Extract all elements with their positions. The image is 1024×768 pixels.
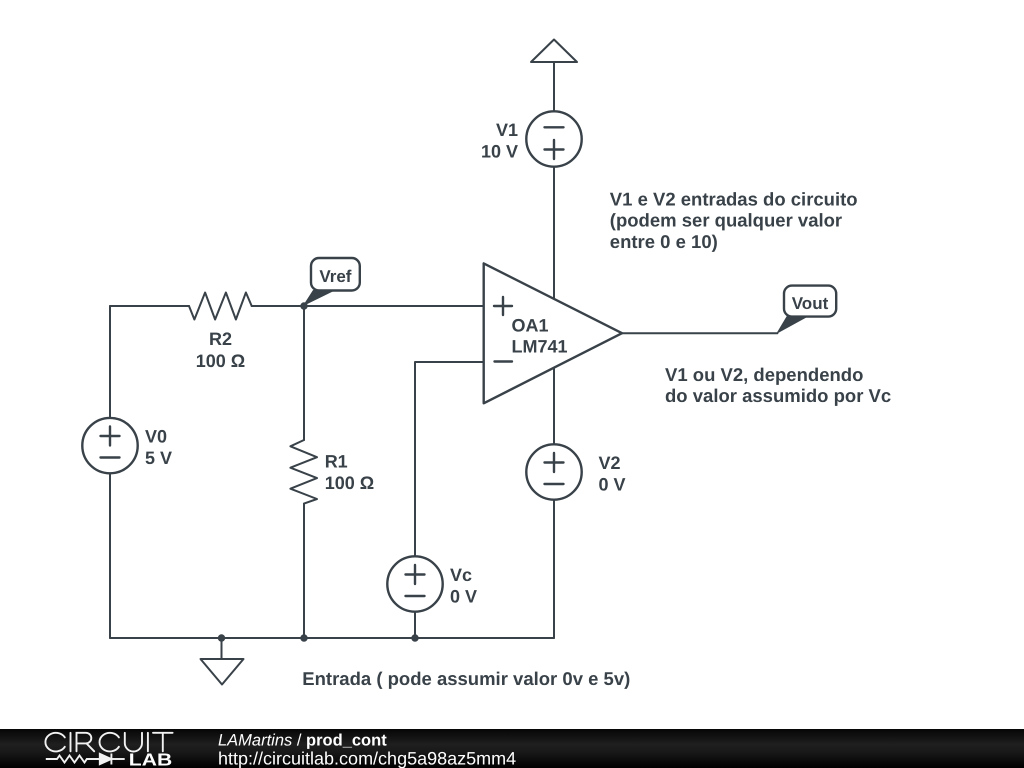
wire: minus input to Vc column [415, 362, 484, 556]
svg-text:R1: R1 [325, 452, 348, 472]
svg-text:5 V: 5 V [145, 448, 172, 468]
U [125, 733, 142, 752]
wire: R1 top lead [303, 306, 305, 440]
voltage source Vc [387, 556, 442, 611]
svg-text:R2: R2 [209, 329, 232, 349]
label R2 100 ohm [196, 329, 245, 371]
resistor R2 [189, 293, 252, 320]
wire: Vc bottom lead [414, 612, 416, 638]
svg-text:0 V: 0 V [599, 475, 626, 495]
junction dot ground [218, 634, 225, 641]
voltage source V1 [526, 111, 581, 166]
svg-text:Entrada ( pode assumir valor 0: Entrada ( pode assumir valor 0v e 5v) [302, 668, 630, 689]
ground [201, 659, 244, 685]
op-amp + input mark [494, 297, 512, 315]
node Vout flag [777, 317, 807, 333]
logo resistor + diode motif [46, 754, 125, 765]
op-amp - input mark [495, 360, 513, 362]
svg-text:do valor assumido por Vc: do valor assumido por Vc [665, 385, 891, 406]
label R1 100 ohm [325, 452, 374, 494]
svg-text:V1 ou V2, dependendo: V1 ou V2, dependendo [665, 364, 863, 385]
voltage source V0 [82, 418, 137, 473]
svg-text:LM741: LM741 [512, 337, 568, 357]
footer bar [0, 729, 1024, 768]
voltage source V2 [526, 444, 581, 499]
svg-text:V2: V2 [599, 453, 621, 473]
svg-text:(podem ser qualquer valor: (podem ser qualquer valor [610, 210, 842, 231]
label V0 5 V [145, 427, 172, 469]
wire: bottom rail [110, 637, 554, 639]
wire: op-amp bottom power pin to V2 [553, 368, 555, 445]
svg-text:OA1: OA1 [512, 316, 549, 336]
svg-text:Vref: Vref [319, 267, 351, 286]
I [147, 733, 149, 752]
resistor R1 [290, 440, 317, 504]
power flag (10V rail arrow) [531, 40, 577, 63]
wire: Vref node to op-amp + input [252, 305, 484, 307]
annotation: V1 ou V2 dependendo [665, 364, 891, 406]
annotation: V1 e V2 entradas [610, 188, 858, 252]
svg-text:10 V: 10 V [481, 142, 518, 162]
wire: V1 bottom to op-amp top power pin [553, 167, 555, 299]
R [77, 733, 95, 752]
wire: ground stem [221, 638, 223, 659]
junction dot Vref node [300, 302, 307, 309]
C [45, 733, 64, 752]
wire: top rail left of R2 [110, 305, 189, 307]
CircuitLab logo CIRCUIT text [45, 733, 172, 752]
svg-text:http://circuitlab.com/chg5a98a: http://circuitlab.com/chg5a98az5mm4 [218, 749, 516, 768]
svg-text:LAB: LAB [129, 749, 172, 768]
junction dot Vc bottom [411, 634, 418, 641]
wire: V1 top lead from power flag [553, 62, 555, 111]
svg-text:Vc: Vc [450, 565, 472, 585]
wire: op-amp output to Vout [622, 332, 777, 334]
svg-text:LAMartins / prod_cont: LAMartins / prod_cont [218, 732, 387, 750]
node Vref flag [304, 291, 334, 306]
wire: V0 left column top [109, 306, 111, 418]
svg-text:V1 e V2 entradas do circuito: V1 e V2 entradas do circuito [610, 188, 858, 209]
svg-text:V0: V0 [145, 427, 167, 447]
svg-text:entre 0 e 10): entre 0 e 10) [610, 231, 718, 252]
wire: R1 bottom lead [303, 504, 305, 638]
C [100, 733, 119, 752]
svg-text:Vout: Vout [792, 294, 829, 313]
label OA1 LM741 [512, 316, 568, 357]
label V2 0 V [599, 453, 626, 495]
junction dot R1 bottom [300, 634, 307, 641]
label Vc 0 V [450, 565, 477, 607]
I [70, 733, 72, 752]
wire: V0 left column bottom [109, 474, 111, 638]
label V1 10 V [481, 120, 518, 162]
svg-text:100 Ω: 100 Ω [325, 473, 374, 493]
wire: V2 bottom to bottom rail [553, 500, 555, 638]
svg-text:100 Ω: 100 Ω [196, 351, 245, 371]
svg-text:0 V: 0 V [450, 587, 477, 607]
T [153, 733, 173, 752]
op-amp U1 triangle [484, 263, 622, 403]
svg-text:V1: V1 [496, 120, 518, 140]
